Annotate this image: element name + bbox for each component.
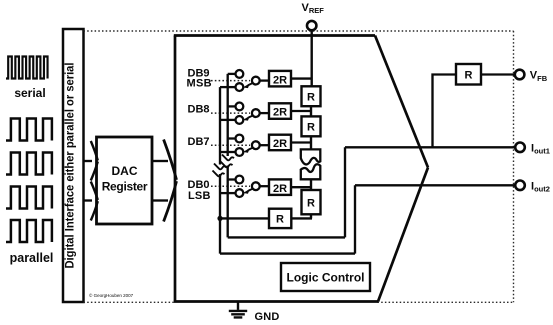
serial waveform icon [6,57,48,79]
wire feedback to Vfb [481,73,515,75]
svg-text:© GeorgHouben 2007: © GeorgHouben 2007 [89,292,134,298]
svg-text:Digital Interface either paral: Digital Interface either parallel or ser… [65,63,77,269]
digital interface box [63,29,84,302]
svg-text:serial: serial [14,86,45,100]
wire interface to register upper [84,160,93,162]
logic control box [281,263,370,291]
dotted border right [513,31,515,302]
svg-text:2R: 2R [273,107,287,119]
DAC core outline bottom edge [174,300,378,303]
wire ladder node2 [310,106,312,116]
svg-text:R: R [307,197,315,209]
big arrowhead register to ladder [164,140,177,222]
svg-text:GND: GND [255,311,280,323]
dotted leader DB9 [211,80,250,82]
svg-text:2R: 2R [273,183,287,195]
resistor 2R (DB8) [269,103,291,119]
parallel waveform 1 [6,119,52,141]
svg-text:VREF: VREF [302,2,325,15]
wire Iout2 line [355,184,515,186]
bus Iout2 vertical (lower contacts) [219,87,221,254]
DAC core outline bottom slant [378,168,428,302]
DAC core outline left edge [174,36,177,302]
svg-text:2R: 2R [273,138,287,150]
arrowhead upper into register [91,141,98,181]
wire 2R DB9 to node1 [291,77,311,79]
dotted leader DB8 [211,112,250,114]
resistor R ladder 2 [302,116,321,136]
resistor R feedback [456,64,481,85]
arrowhead lower into register [91,182,98,221]
resistor 2R (DB9) [269,71,291,87]
terminal Vref [307,21,316,30]
DAC core outline top edge [174,34,375,37]
resistor R ladder 1 [302,86,321,106]
resistor R terminator [269,209,291,228]
switch S2 (DB8) [220,103,269,124]
svg-text:R: R [307,121,315,133]
svg-text:Logic Control: Logic Control [287,270,365,284]
wire Iout1 line [345,146,515,148]
dotted border top [84,30,514,32]
svg-text:VFB: VFB [530,70,548,83]
svg-text:R: R [276,213,284,225]
ground stem [237,302,239,310]
svg-text:parallel: parallel [10,251,54,265]
bus Iout2 bottom run [220,252,355,254]
svg-text:R: R [307,91,315,103]
wire 2R DB7 to node3 [291,141,311,143]
wire terminator to bus Iout2 [220,217,269,219]
wire interface to register lower [84,199,93,201]
resistor 2R (DB7) [269,135,291,151]
svg-text:MSB: MSB [187,78,212,90]
wire register to ladder lower [152,199,168,201]
wire riser Iout1 [344,147,346,237]
bus Iout1 bottom run [228,236,345,238]
terminal Vfb [515,70,525,80]
wire Vref stem [311,30,313,86]
resistor 2R (DB0) [269,179,291,195]
junction terminator bus [217,216,222,221]
svg-text:Iout1: Iout1 [531,142,550,155]
wire ladder node4 [310,179,312,190]
svg-text:DB7: DB7 [188,136,210,148]
ladder break symbol top piece [301,149,321,164]
DAC register U1 [97,137,153,224]
wire 2R DB0 to node4 [291,186,311,188]
ladder break symbol bottom piece [301,164,321,179]
break mark on bus Iout2 [213,164,227,177]
bus Iout1 vertical (upper contacts) [227,74,229,238]
break mark on bus Iout1 [221,155,235,168]
svg-text:DAC: DAC [112,164,138,178]
wire riser Iout2 [354,185,356,253]
parallel waveform 3 [6,187,52,209]
wire ladder node3 [310,136,312,149]
wire register to ladder upper [152,160,168,162]
resistor R ladder 3 [302,190,321,214]
dotted leader DB0 [211,185,250,187]
svg-text:Register: Register [102,180,148,194]
terminal Iout1 [515,143,525,153]
svg-text:Iout2: Iout2 [531,180,550,193]
wire feedback riser [433,75,457,148]
dotted leader DB7 [211,144,250,146]
ground symbol [229,311,247,318]
svg-text:R: R [465,70,473,82]
parallel waveform 2 [6,153,52,175]
switch S1 (DB9) [220,70,269,91]
DAC core outline top slant [375,36,428,168]
terminal Iout2 [515,181,525,191]
wire 2R DB8 to node2 [291,110,311,112]
switch S4 (DB0) [220,176,269,197]
dotted border bottom [84,301,514,303]
svg-text:2R: 2R [273,74,287,86]
svg-text:DB8: DB8 [188,104,210,116]
wire ladder bottom corner [291,214,312,218]
switch S3 (DB7) [220,135,269,156]
parallel waveform 4 [6,220,52,242]
svg-text:LSB: LSB [188,190,211,202]
